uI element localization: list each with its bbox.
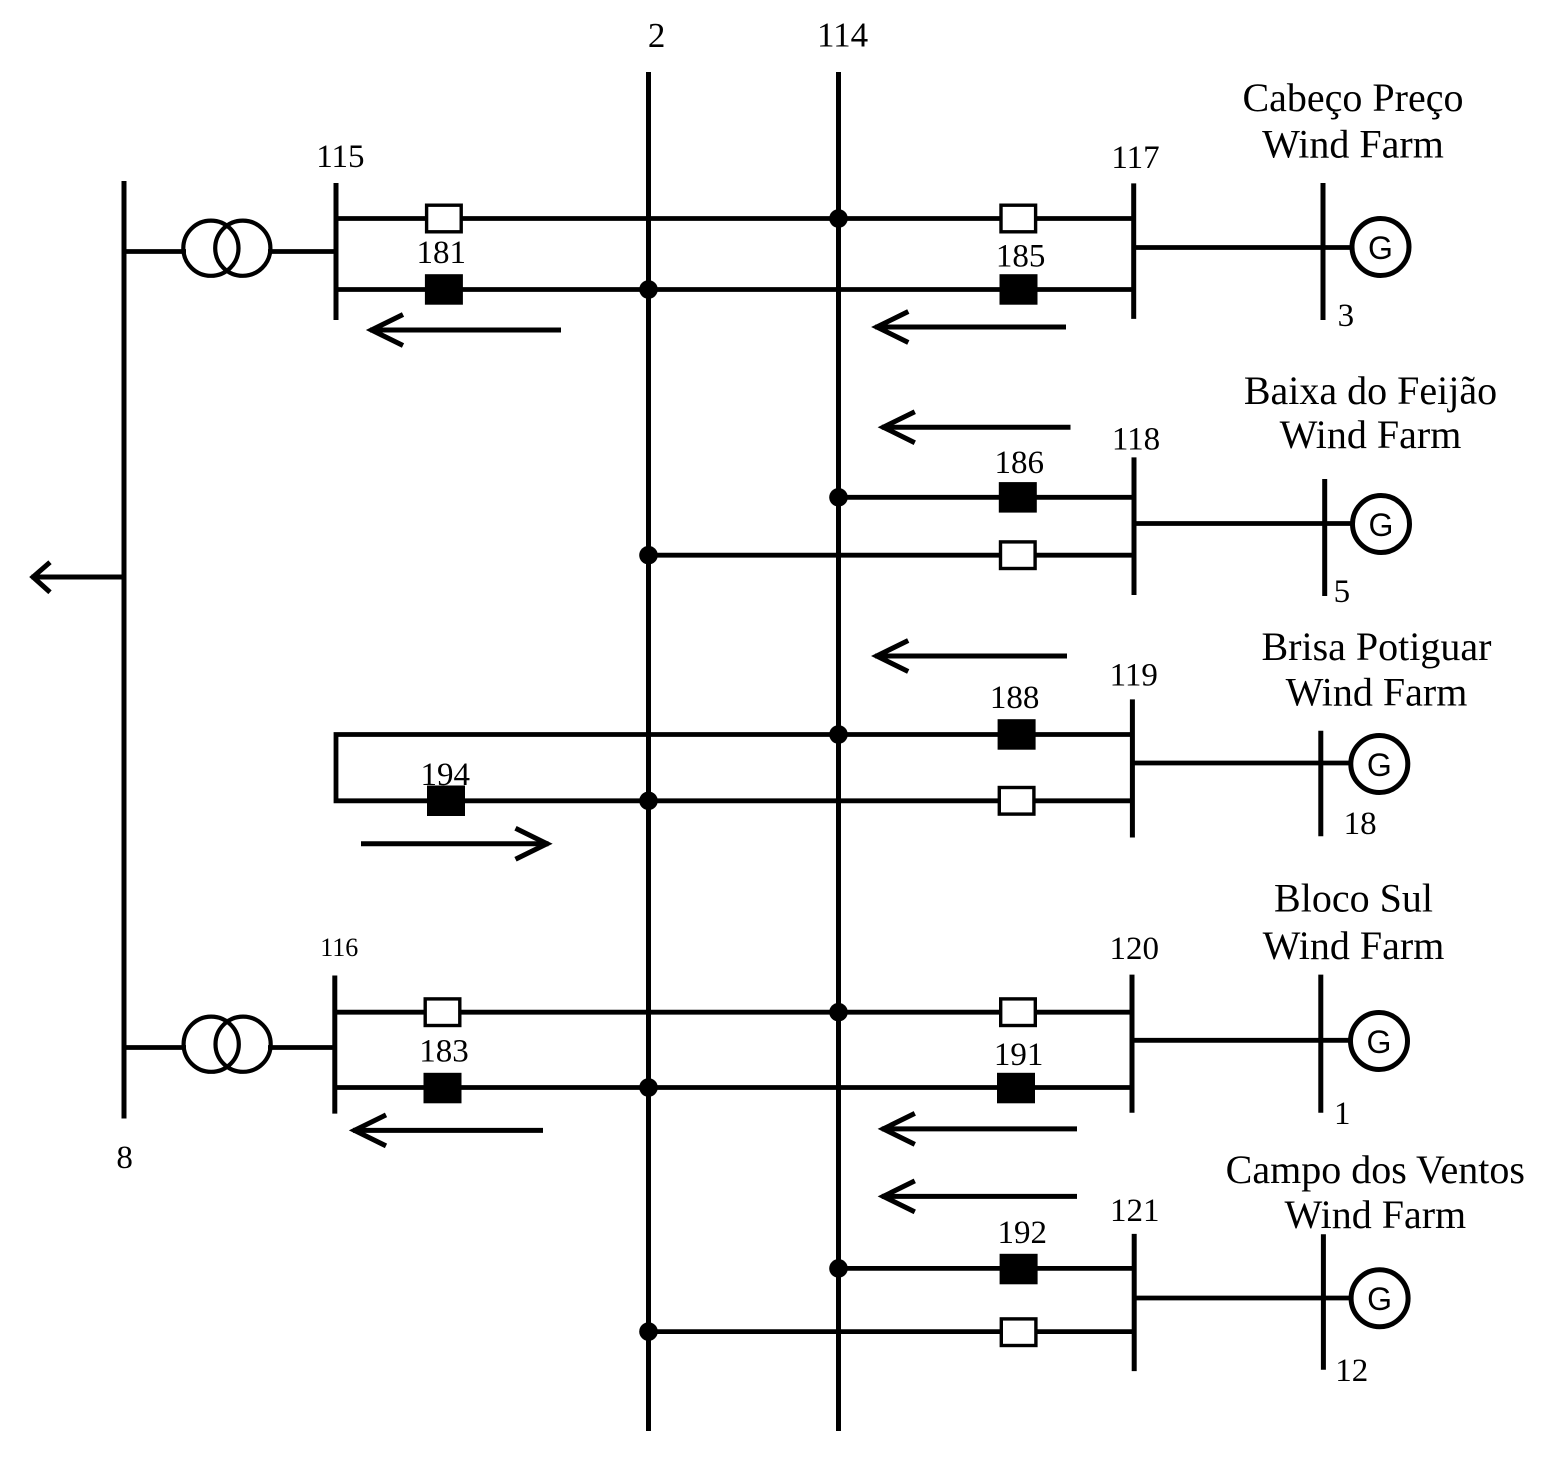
generator terminal bus (gen 1) — [1318, 975, 1323, 1113]
transformer T2 (bus8-bus116) — [184, 1017, 271, 1072]
junction lower line x bus 2 — [639, 546, 658, 565]
generator G (Brisa Potiguar) — [1351, 736, 1408, 793]
breaker 188 (closed) — [998, 719, 1036, 750]
breaker 183 (closed) — [424, 1073, 462, 1104]
svg-text:119: 119 — [1110, 657, 1158, 693]
svg-text:G: G — [1368, 230, 1393, 266]
svg-text:8: 8 — [116, 1140, 133, 1176]
svg-text:191: 191 — [994, 1037, 1044, 1073]
junction upper line x bus 114 — [829, 725, 848, 744]
transformer T1 (bus8-bus115) — [183, 221, 270, 276]
svg-text:Campo dos Ventos: Campo dos Ventos — [1226, 1147, 1525, 1192]
svg-text:181: 181 — [417, 235, 467, 271]
wire line 194 hairpin (119 upper - left - lower) — [336, 735, 1132, 801]
svg-text:G: G — [1367, 1281, 1392, 1317]
svg-text:3: 3 — [1338, 298, 1355, 334]
breaker open on upper line at 116 side — [425, 999, 460, 1026]
wire transformer T1 to bus 115 — [268, 249, 336, 254]
junction lower line x bus 2 — [639, 280, 658, 299]
arrow flow on line 185 (to bus 114) — [875, 312, 1066, 343]
wire bus 119 to generator 18 — [1132, 761, 1350, 766]
arrow flow on line 181 (to bus 115) — [370, 315, 561, 346]
breaker 191 (closed) — [997, 1073, 1035, 1104]
arrow load flow out of bus 8 — [32, 562, 125, 592]
bus 118 — [1132, 457, 1137, 595]
svg-text:115: 115 — [316, 139, 364, 175]
junction upper line x bus 114 — [829, 209, 848, 228]
generator terminal bus (gen 18) — [1318, 731, 1323, 837]
junction upper line x bus 114 — [829, 1259, 848, 1278]
svg-text:116: 116 — [320, 933, 358, 962]
bus 8 (main vertical busbar, left) — [122, 181, 127, 1119]
breaker open on lower line at 121 side — [1001, 1319, 1036, 1346]
breaker 186 (closed) — [999, 482, 1037, 512]
wire line 114-121 upper — [839, 1266, 1135, 1271]
bus 115 — [334, 183, 339, 320]
svg-text:12: 12 — [1335, 1353, 1368, 1389]
svg-text:185: 185 — [996, 239, 1046, 275]
svg-text:194: 194 — [421, 757, 471, 793]
svg-text:Brisa Potiguar: Brisa Potiguar — [1262, 624, 1492, 669]
wire bus 118 to generator 5 — [1134, 521, 1353, 526]
bus 116 — [332, 976, 337, 1114]
breaker open on upper line at 120 side — [1001, 999, 1036, 1026]
svg-text:118: 118 — [1112, 422, 1160, 458]
breaker 192 (closed) — [1000, 1254, 1038, 1285]
junction lower line x bus 2 — [639, 792, 658, 811]
svg-text:120: 120 — [1110, 931, 1160, 967]
generator G (Bloco Sul) — [1351, 1013, 1408, 1070]
svg-text:Wind Farm: Wind Farm — [1263, 923, 1445, 968]
svg-text:Cabeço Preço: Cabeço Preço — [1242, 75, 1463, 120]
svg-text:192: 192 — [997, 1215, 1047, 1251]
svg-text:G: G — [1369, 507, 1394, 543]
svg-text:183: 183 — [419, 1034, 469, 1070]
svg-text:Wind Farm: Wind Farm — [1284, 1192, 1466, 1237]
svg-text:Wind Farm: Wind Farm — [1262, 122, 1444, 167]
svg-text:Wind Farm: Wind Farm — [1280, 412, 1462, 457]
svg-text:2: 2 — [648, 16, 666, 55]
svg-text:G: G — [1367, 747, 1392, 783]
bus 2 (vertical busbar) — [646, 72, 651, 1431]
bus 119 — [1130, 699, 1135, 837]
generator G (Cabeço Preço) — [1352, 219, 1409, 276]
svg-text:G: G — [1367, 1024, 1392, 1060]
generator terminal bus (gen 3) — [1321, 183, 1326, 320]
arrow flow on line 194 (to bus 119) — [361, 828, 549, 859]
junction upper line x bus 114 — [829, 1003, 848, 1022]
arrow flow on line 188 (to bus 114) — [875, 641, 1067, 672]
bus 121 — [1132, 1234, 1137, 1371]
svg-text:1: 1 — [1334, 1096, 1351, 1132]
generator G (Campo dos Ventos) — [1351, 1270, 1408, 1327]
wire bus 120 to generator 1 — [1132, 1038, 1350, 1043]
svg-text:Baixa do Feijão: Baixa do Feijão — [1244, 368, 1497, 413]
wire bus8 to transformer T1 — [124, 249, 186, 254]
wire line 114-118 upper — [839, 495, 1135, 500]
svg-text:5: 5 — [1334, 574, 1351, 610]
generator G (Baixa do Feijão) — [1353, 496, 1410, 553]
wire bus8 to transformer T2 — [124, 1045, 186, 1050]
wire line 116-120 lower (via bus 2) — [335, 1085, 1132, 1090]
svg-text:Bloco Sul: Bloco Sul — [1274, 875, 1433, 920]
generator terminal bus (gen 12) — [1321, 1234, 1326, 1370]
arrow flow on line 191 (to bus 114) — [882, 1113, 1077, 1144]
svg-text:18: 18 — [1344, 806, 1377, 842]
wire line 2-118 lower — [649, 553, 1135, 558]
breaker 185 (closed) — [1000, 274, 1038, 305]
breaker open on upper line at 117 side — [1001, 205, 1036, 232]
arrow flow on line 186 (to bus 114) — [882, 412, 1071, 443]
bus 120 — [1130, 975, 1135, 1113]
wire line 116-120 upper (via bus 114) — [335, 1010, 1132, 1015]
wire line 115-117 upper (via bus 114) — [336, 216, 1134, 221]
breaker open on lower line at 118 side — [1001, 542, 1036, 569]
breaker 194 (closed) — [427, 786, 465, 817]
wire line 2-121 lower — [649, 1329, 1135, 1334]
arrow flow on line 183 (to bus 116) — [353, 1115, 543, 1146]
junction lower line x bus 2 — [639, 1078, 658, 1097]
svg-text:Wind Farm: Wind Farm — [1286, 669, 1468, 714]
wire line 115-117 lower (via bus 2) — [336, 287, 1134, 292]
wire bus 121 to generator 12 — [1134, 1296, 1351, 1301]
junction upper line x bus 114 — [829, 488, 848, 507]
svg-text:117: 117 — [1111, 140, 1159, 176]
svg-text:114: 114 — [817, 16, 868, 55]
generator terminal bus (gen 5) — [1322, 479, 1327, 596]
breaker open on upper line at 115 side — [427, 205, 462, 232]
junction lower line x bus 2 — [639, 1322, 658, 1341]
wire transformer T2 to bus 116 — [268, 1045, 335, 1050]
bus 117 — [1131, 183, 1136, 319]
svg-text:188: 188 — [990, 680, 1040, 716]
arrow flow on line 192 (to bus 114) — [882, 1181, 1077, 1212]
bus 114 (vertical busbar) — [836, 72, 841, 1431]
wire bus 117 to generator 3 — [1134, 245, 1352, 250]
breaker open on lower line at 119 side — [999, 788, 1034, 815]
svg-text:121: 121 — [1110, 1193, 1160, 1229]
svg-text:186: 186 — [995, 445, 1045, 481]
breaker 181 (closed) — [425, 274, 463, 305]
